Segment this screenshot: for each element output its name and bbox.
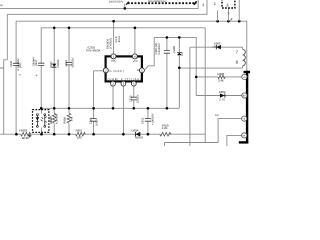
photocoupler PC901 dashed box — [33, 110, 49, 133]
resistor R912 — [52, 113, 56, 123]
svg-text:R906: R906 — [218, 72, 225, 76]
wire left jog — [0, 60, 7, 134]
svg-text:2.7V: 2.7V — [219, 98, 225, 102]
wire dashed-unit drop — [124, 3, 126, 7]
svg-text:R907: R907 — [76, 128, 83, 132]
node snubber rail C302 — [166, 36, 169, 39]
svg-text:OSC: OSC — [111, 59, 116, 62]
dashed line-filter top — [126, 1, 196, 5]
diode D904 — [220, 93, 225, 97]
svg-text:VCC: VCC — [133, 60, 138, 63]
svg-text:ZD: ZD — [181, 52, 184, 56]
svg-text:24V: 24V — [215, 114, 220, 117]
node gnd bus-pin3 — [122, 133, 125, 136]
diode D903 — [216, 45, 221, 50]
wire C902 column — [94, 71, 105, 134]
wire H3 bus — [16, 21, 247, 70]
node mid bus-C912 — [147, 107, 150, 110]
wire H4 bus — [41, 28, 205, 63]
wire H2 bus — [7, 0, 207, 60]
zener D309 — [177, 52, 182, 55]
svg-text:N011AB/NP2UH: N011AB/NP2UH — [148, 0, 166, 3]
resistor R9603 — [21, 132, 31, 136]
wire +5 circle link — [218, 119, 242, 143]
node D309-winding return — [178, 67, 181, 70]
node H4-D901 — [53, 27, 56, 30]
node mid bus-pin2 — [112, 107, 115, 110]
connector circle +5 — [242, 116, 247, 121]
svg-text:2.2K: 2.2K — [162, 126, 168, 130]
node H3 to pin1 — [112, 20, 115, 23]
node R906 branch — [195, 76, 198, 79]
node mid bus-R908 — [68, 107, 71, 110]
wire riser 228 — [227, 8, 229, 21]
wire D309 column — [178, 37, 180, 108]
svg-text:180: 180 — [77, 135, 82, 139]
wire pin bottom 1 — [112, 85, 114, 108]
svg-text:9V15: 9V15 — [118, 36, 121, 43]
wire bottom bus — [0, 133, 205, 135]
svg-text:+: + — [36, 74, 38, 78]
svg-text:1SR35: 1SR35 — [57, 59, 60, 68]
wire C912 column — [147, 108, 149, 134]
node gnd bus-C912 — [147, 133, 150, 136]
svg-text:C902: C902 — [90, 117, 93, 124]
capacitor C817 — [38, 63, 44, 65]
wire D903 line — [190, 47, 243, 146]
capacitor C910 — [131, 97, 137, 100]
wire riser 217 — [217, 11, 219, 22]
svg-text:(YY(R)A): (YY(R)A) — [109, 38, 112, 49]
wire C815 column lower — [15, 66, 17, 135]
svg-text:4A: 4A — [214, 2, 217, 5]
wire right riser 196 — [195, 37, 197, 95]
node mid bus-C902 — [92, 107, 95, 110]
wire bottom circle link — [227, 135, 242, 146]
wire C302 column — [166, 37, 168, 108]
node gnd bus-R912 — [53, 133, 56, 136]
node snubber rail D309 — [178, 36, 181, 39]
wire ground bus mid — [41, 107, 179, 109]
wire R906 line — [196, 76, 242, 78]
wire rail 37 — [154, 36, 196, 38]
node mid bus-C817 — [40, 107, 43, 110]
svg-text:C819: C819 — [65, 60, 68, 67]
svg-text:8A: 8A — [226, 3, 229, 6]
node H4-C819 — [68, 27, 71, 30]
wire long right riser 205 — [204, 28, 206, 143]
wire opto drop — [41, 108, 43, 134]
svg-text:D904: D904 — [219, 90, 226, 94]
svg-text:F9603: F9603 — [19, 129, 27, 133]
thick edge bar right — [239, 71, 250, 144]
wire pin bottom 3 via C910 — [133, 85, 135, 108]
svg-text:C912: C912 — [141, 117, 144, 124]
connector circle +B — [242, 74, 247, 79]
wire pin5 link — [145, 37, 154, 69]
svg-text:3.9K: 3.9K — [218, 78, 224, 82]
connector circle 9V — [242, 93, 247, 98]
wire bottom shelf — [165, 143, 219, 147]
tick mark near fuse — [230, 18, 232, 20]
capacitor C902 — [91, 119, 97, 122]
transformer winding 7-8 — [243, 49, 246, 66]
node gnd bus-R908 — [68, 133, 71, 136]
diode D901 — [52, 64, 57, 68]
wire D901 column — [53, 28, 55, 109]
svg-text:C817: C817 — [35, 59, 38, 66]
connector circle 5V — [242, 133, 247, 138]
node mid bus-R912 — [53, 107, 56, 110]
svg-text:4.2k/1W: 4.2k/1W — [55, 114, 58, 124]
resistor R910 — [160, 132, 171, 136]
svg-text:18: 18 — [137, 69, 140, 72]
node H3 junction A — [216, 20, 219, 23]
wire R912 column lower — [53, 108, 55, 134]
svg-text:TB9V2: TB9V2 — [135, 136, 144, 140]
svg-text:(L/OSC): (L/OSC) — [109, 70, 124, 73]
wire pin1 riser — [113, 21, 115, 54]
svg-text:+100/16V: +100/16V — [152, 113, 155, 125]
wire H1 bus — [0, 0, 198, 8]
wire D904 line — [196, 95, 242, 97]
rotated component labels left — [10, 2, 230, 126]
svg-text:0.015/1N: 0.015/1N — [158, 44, 161, 55]
IC pin circles — [103, 54, 144, 86]
svg-text:10/35V: 10/35V — [137, 94, 140, 103]
capacitor C912 — [145, 119, 151, 122]
node H4 to pin4 — [134, 27, 137, 30]
node gnd bus-C815 — [15, 133, 18, 136]
wire R908 column lower — [68, 108, 70, 134]
wire pin bottom 2 — [122, 85, 124, 134]
node gnd bus-PC901 — [40, 133, 43, 136]
svg-text:R908: R908 — [64, 117, 67, 124]
op-amp IC301 STR regulator thick body — [106, 56, 142, 81]
node mid bus-C302 — [166, 107, 169, 110]
node mid bus-C910 — [133, 107, 136, 110]
capacitor C815 — [13, 63, 19, 65]
svg-text:0.022: 0.022 — [96, 119, 99, 126]
IC pin numbers — [105, 54, 143, 85]
svg-text:D901: D901 — [50, 61, 53, 68]
node H3 junction B — [238, 20, 241, 23]
svg-text:D309: D309 — [173, 46, 176, 53]
svg-text:(XK): (XK) — [19, 63, 22, 68]
svg-text:100UF/250V: 100UF/250V — [109, 0, 124, 3]
wire winding stubs — [179, 47, 242, 68]
photocoupler LED — [36, 118, 39, 121]
svg-text:D90A: D90A — [132, 128, 139, 132]
svg-text:4A: 4A — [202, 3, 205, 6]
node gnd bus-C902 — [92, 133, 95, 136]
svg-text:100/25V: 100/25V — [72, 57, 75, 67]
wire riser 239 — [238, 0, 240, 21]
wire C819 column — [68, 28, 70, 109]
node H3 fuse junction — [227, 20, 230, 23]
capacitor C302 — [164, 51, 170, 54]
svg-text:1000: 1000 — [10, 60, 13, 66]
node H1-reservoir tap — [124, 7, 127, 10]
svg-text:S40WV: S40WV — [32, 57, 35, 66]
photocoupler internals — [36, 114, 47, 128]
capacitor C819 — [66, 63, 72, 65]
resistor R907 — [75, 132, 85, 136]
resistor R908 — [67, 113, 71, 123]
svg-text:PC91: PC91 — [50, 115, 53, 122]
svg-text:C910: C910 — [130, 95, 133, 102]
svg-text:1W: 1W — [70, 117, 73, 121]
svg-text:BC48: BC48 — [22, 136, 29, 140]
dashed fuse box top right — [222, 0, 235, 8]
svg-text:STR-4653A: STR-4653A — [86, 49, 101, 53]
wire pin4 riser — [134, 28, 136, 54]
svg-text:1N4007: 1N4007 — [212, 45, 222, 48]
wire C817 column lower — [40, 66, 42, 109]
diode D90A — [135, 132, 140, 137]
svg-text:(U8B) 2 (T)/(AU): (U8B) 2 (T)/(AU) — [108, 78, 142, 81]
svg-text:+: + — [19, 73, 21, 77]
resistor R906 — [218, 75, 225, 78]
ground mark — [28, 134, 31, 137]
